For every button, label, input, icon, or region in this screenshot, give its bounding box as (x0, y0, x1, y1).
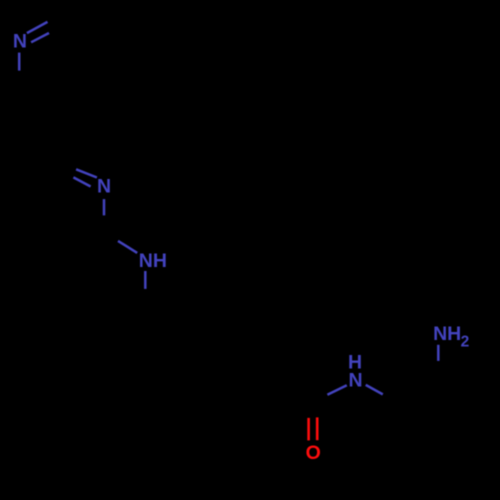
svg-text:NH: NH (139, 250, 167, 272)
svg-text:NH: NH (433, 323, 461, 345)
svg-text:O: O (306, 442, 321, 464)
svg-text:2: 2 (461, 334, 470, 351)
svg-text:N: N (13, 31, 27, 53)
svg-text:N: N (349, 370, 363, 392)
svg-text:N: N (97, 175, 111, 197)
